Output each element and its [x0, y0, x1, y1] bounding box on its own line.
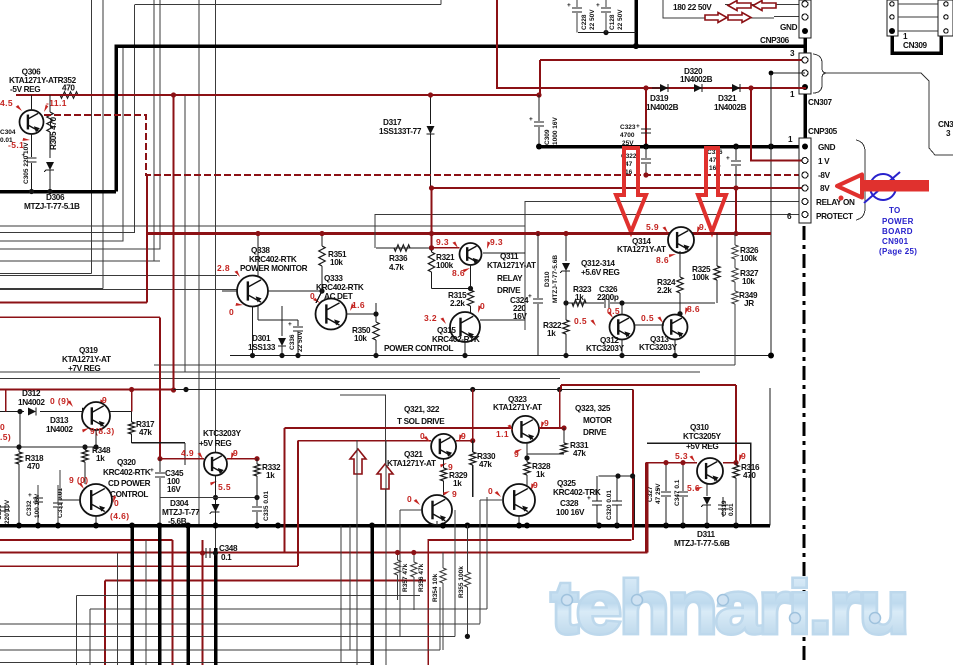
- wire thick bottom: [158, 526, 162, 666]
- svg-text:GND: GND: [780, 23, 798, 32]
- svg-text:C128: C128: [609, 14, 616, 30]
- svg-text:KTC3203Y: KTC3203Y: [586, 344, 625, 353]
- label Q310: [683, 423, 722, 451]
- voltage -5.1: [8, 135, 30, 150]
- label R315: [448, 291, 467, 308]
- wire red base: [429, 245, 460, 250]
- resistor R326: [732, 245, 738, 268]
- capacitor C316: [707, 147, 741, 189]
- capacitor C348: [200, 548, 218, 558]
- label D301: [248, 334, 276, 352]
- svg-text:MOTOR: MOTOR: [583, 416, 612, 425]
- label D306: [24, 193, 80, 211]
- label C348: [219, 544, 238, 562]
- wire: [375, 215, 806, 249]
- junction: [643, 172, 648, 177]
- svg-text:C323: C323: [620, 124, 636, 131]
- label R316: [741, 463, 760, 480]
- wire: [428, 92, 433, 124]
- svg-text:Q338: Q338: [251, 246, 270, 255]
- wire: [480, 320, 525, 330]
- svg-text:+5.6V REG: +5.6V REG: [581, 268, 620, 277]
- capacitor C330: [0, 499, 11, 524]
- svg-text:+: +: [528, 293, 532, 300]
- wire: [160, 495, 260, 500]
- arrow: [728, 13, 751, 23]
- transistor Q306: [20, 110, 44, 134]
- wire: [677, 251, 682, 316]
- label R323: [573, 285, 592, 302]
- svg-text:DRIVE: DRIVE: [497, 286, 521, 295]
- label R322: [543, 321, 562, 338]
- svg-text:1N4002: 1N4002: [18, 398, 45, 407]
- wire: [135, 4, 441, 6]
- svg-text:-5V REG: -5V REG: [10, 85, 40, 94]
- wire: [346, 311, 379, 316]
- label R350: [352, 326, 371, 343]
- label C328: [556, 499, 585, 517]
- capacitor C305: [22, 142, 37, 184]
- arrow: [705, 13, 727, 23]
- resistor R305: [47, 112, 58, 150]
- wire: [0, 5, 135, 233]
- wire: [0, 412, 56, 448]
- wire: [31, 134, 33, 192]
- voltage 0: [310, 291, 320, 303]
- connector CN307: [799, 53, 811, 94]
- capacitor C323: [620, 123, 651, 147]
- svg-text:1k: 1k: [536, 470, 545, 479]
- svg-text:2200p: 2200p: [597, 293, 619, 302]
- resistor R329: [440, 459, 446, 495]
- wire: [76, 596, 420, 666]
- svg-text:T SOL DRIVE: T SOL DRIVE: [397, 417, 445, 426]
- label R317: [136, 420, 155, 437]
- label R328: [532, 462, 551, 479]
- svg-text:1SS133T-77: 1SS133T-77: [379, 127, 422, 136]
- connector CNP305: [799, 138, 811, 223]
- svg-text:9 (0): 9 (0): [69, 475, 88, 485]
- svg-text:Q323, 325: Q323, 325: [575, 404, 611, 413]
- svg-text:16V: 16V: [167, 485, 181, 494]
- junction: [535, 231, 738, 236]
- svg-text:9.3: 9.3: [436, 237, 449, 247]
- wire: [341, 526, 350, 663]
- label Q323 325: [575, 404, 612, 437]
- wire: [0, 0, 160, 249]
- capacitor C331: [53, 485, 64, 526]
- voltage 9r: [442, 488, 457, 499]
- capacitor C345: [150, 459, 165, 526]
- svg-text:D306: D306: [46, 193, 65, 202]
- ground rail: [0, 524, 770, 528]
- wire red: [723, 460, 739, 465]
- junction: [250, 353, 774, 359]
- wire: [213, 476, 218, 500]
- label R348: [92, 446, 111, 463]
- capacitor C327: [647, 460, 671, 526]
- wire: [31, 95, 33, 110]
- svg-text:CN309: CN309: [903, 41, 928, 50]
- svg-text:C320 0.01: C320 0.01: [606, 490, 613, 520]
- svg-text:CN901: CN901: [882, 237, 909, 246]
- wire: [184, 95, 186, 372]
- wire: [153, 0, 155, 261]
- wire: [437, 521, 446, 529]
- svg-text:Q321, 322: Q321, 322: [404, 405, 440, 414]
- label D320: [680, 67, 713, 84]
- svg-text:9.3: 9.3: [490, 237, 503, 247]
- voltage (4.6): [110, 511, 129, 521]
- pin 1: [790, 90, 795, 99]
- capacitor C320: [606, 476, 622, 526]
- wire red rail2: [0, 389, 174, 391]
- svg-text:10k: 10k: [354, 334, 367, 343]
- transistor Q311: [460, 243, 482, 265]
- svg-text:2.2k: 2.2k: [450, 299, 465, 308]
- junction: [16, 523, 739, 529]
- svg-text:0: 0: [407, 494, 412, 504]
- svg-text:D313: D313: [50, 416, 69, 425]
- wire gnd bus: [0, 190, 116, 194]
- resistor R354: [440, 553, 446, 651]
- voltage 0c: [420, 431, 431, 442]
- connector CN307 pins: [802, 57, 808, 76]
- label GND: [818, 143, 836, 152]
- svg-text:+: +: [150, 467, 154, 474]
- wire thick bottom: [186, 526, 190, 666]
- zener D306: [44, 162, 54, 192]
- wire: [0, 587, 440, 650]
- resistor R325: [714, 234, 720, 304]
- resistor R349: [732, 291, 738, 365]
- svg-text:5.3: 5.3: [675, 451, 688, 461]
- voltage 9h: [529, 480, 539, 491]
- wire red: [561, 385, 736, 440]
- svg-text:MTZJ-T-77-5.6B: MTZJ-T-77-5.6B: [674, 539, 730, 548]
- label R326: [740, 246, 759, 263]
- diode D317: [427, 126, 435, 188]
- wire CN307 mid: [771, 72, 805, 74]
- svg-text:BOARD: BOARD: [882, 227, 913, 236]
- wire 9.4V rail: [147, 232, 771, 235]
- resistor R331: [527, 428, 567, 454]
- wire: [0, 316, 160, 318]
- wire: [440, 0, 442, 5]
- svg-text:R356 47k: R356 47k: [418, 563, 425, 592]
- voltage 1.1: [496, 424, 515, 439]
- transistor Q325: [503, 484, 535, 516]
- svg-text:4.7k: 4.7k: [389, 263, 404, 272]
- svg-text:+5V REG: +5V REG: [199, 439, 231, 448]
- wire red: [470, 390, 475, 444]
- arrow big: [616, 148, 646, 232]
- arrow up2: [377, 464, 393, 489]
- voltage 9c: [229, 448, 239, 460]
- svg-text:-8V: -8V: [818, 171, 831, 180]
- svg-text:10k: 10k: [330, 258, 343, 267]
- wire red: [735, 440, 737, 463]
- wire red: [645, 463, 647, 553]
- wire: [578, 30, 639, 49]
- wire: [215, 0, 217, 548]
- transistor Q313: [663, 315, 688, 340]
- label R331: [570, 441, 589, 458]
- svg-text:1N4002B: 1N4002B: [646, 103, 679, 112]
- svg-text:D321: D321: [718, 94, 737, 103]
- voltage 9: [98, 395, 108, 407]
- label CN309: [903, 41, 928, 50]
- arrow: [728, 1, 751, 11]
- capacitor C324: [528, 234, 543, 356]
- label TO POWER BOARD: [879, 206, 917, 256]
- svg-text:16: 16: [625, 169, 633, 176]
- capacitor C332: [26, 485, 43, 526]
- svg-text:KTC3203Y: KTC3203Y: [203, 429, 242, 438]
- svg-text:Q310: Q310: [690, 423, 709, 432]
- capacitor C128: [596, 2, 624, 30]
- label R349: [739, 291, 758, 308]
- wire: [734, 234, 736, 246]
- svg-text:8.6: 8.6: [452, 268, 465, 278]
- svg-text:0.5: 0.5: [574, 316, 587, 326]
- wire: [539, 60, 541, 95]
- wire: [0, 371, 700, 373]
- svg-text:100 16V: 100 16V: [556, 508, 585, 517]
- svg-text:MTZJ-T-77-5.6B: MTZJ-T-77-5.6B: [552, 255, 559, 303]
- svg-text:C330: C330: [0, 504, 3, 520]
- svg-text:9: 9: [452, 489, 457, 499]
- resistor 470: [60, 84, 78, 99]
- wire: [370, 526, 374, 666]
- label 8V: [820, 184, 830, 193]
- junction: [254, 523, 260, 529]
- wire: [356, 440, 358, 665]
- label C324: [510, 296, 529, 321]
- wire: [90, 609, 487, 665]
- resistor R327: [732, 268, 738, 291]
- svg-text:C305 220 10V: C305 220 10V: [23, 142, 30, 184]
- wire: [803, 38, 807, 53]
- wire black: [174, 389, 634, 391]
- label R330: [477, 452, 496, 469]
- dash-dot line: [802, 226, 805, 665]
- svg-text:470: 470: [27, 462, 40, 471]
- wire 8V rail: [432, 187, 807, 189]
- wire red: [0, 539, 173, 541]
- label CNP305: [808, 127, 838, 136]
- diode D312: [0, 408, 36, 416]
- voltage 5.3: [675, 451, 697, 462]
- svg-text:3.2: 3.2: [424, 313, 437, 323]
- voltage -11.1: [43, 98, 67, 112]
- svg-text:Q333: Q333: [324, 274, 343, 283]
- svg-text:R354 10k: R354 10k: [432, 573, 439, 602]
- pin 3: [790, 49, 795, 58]
- wire red: [202, 540, 204, 665]
- voltage 9.3: [436, 237, 460, 248]
- svg-text:KRC402-RTK: KRC402-RTK: [103, 468, 151, 477]
- wire: [470, 265, 472, 290]
- svg-text:C348: C348: [219, 544, 238, 553]
- wire: [525, 202, 806, 331]
- voltage 5.5: [209, 478, 231, 492]
- label R324: [657, 278, 676, 295]
- svg-text:POWER: POWER: [882, 217, 914, 226]
- label Q319: [62, 346, 111, 373]
- resistor R318: [16, 444, 22, 525]
- wire: [0, 510, 455, 636]
- transistor Q320: [80, 484, 112, 516]
- label D317: [379, 118, 422, 136]
- wire: [400, 510, 421, 637]
- svg-text:C304: C304: [0, 129, 16, 136]
- capacitor C319: [718, 497, 735, 517]
- svg-text:KTC3205Y: KTC3205Y: [683, 432, 722, 441]
- label D313: [46, 416, 73, 434]
- label R351: [328, 250, 347, 267]
- svg-text:-11.1: -11.1: [46, 98, 67, 108]
- wire: [0, 46, 123, 241]
- resistor R316: [733, 463, 739, 526]
- svg-text:DRIVE: DRIVE: [583, 428, 607, 437]
- connector CN309: [887, 0, 898, 36]
- wire red: [172, 540, 174, 665]
- label PROTECT: [816, 212, 853, 221]
- wire thick bottom: [130, 526, 134, 666]
- wire: [634, 0, 638, 46]
- svg-text:C332: C332: [26, 500, 33, 516]
- svg-text:KTA1271Y-AT: KTA1271Y-AT: [487, 261, 536, 270]
- svg-text:+: +: [636, 123, 640, 130]
- svg-text:.5): .5): [0, 432, 11, 442]
- svg-text:GND: GND: [818, 143, 836, 152]
- wire: [563, 300, 604, 305]
- wire: [429, 188, 434, 248]
- junction: [171, 92, 176, 392]
- svg-text:+: +: [596, 2, 600, 9]
- wire -5V rail: [16, 94, 539, 96]
- resistor R332: [254, 459, 260, 498]
- wire: [0, 661, 370, 663]
- svg-text:TO: TO: [889, 206, 901, 215]
- label R355: [458, 566, 465, 598]
- wire: [577, 0, 606, 33]
- svg-text:0 (9): 0 (9): [50, 396, 69, 406]
- voltage 0.5c: [641, 313, 665, 323]
- wire: [340, 395, 386, 526]
- svg-text:KRC402-RTK: KRC402-RTK: [432, 335, 480, 344]
- voltage 0.5: [606, 306, 620, 318]
- label D319: [646, 94, 679, 112]
- svg-text:D310: D310: [544, 271, 551, 287]
- wire red: [105, 580, 426, 582]
- voltage 4.9: [181, 448, 205, 459]
- wire red: [283, 428, 285, 553]
- voltage 0 (9): [50, 396, 75, 407]
- wire: [60, 470, 80, 500]
- label Q333: [316, 274, 364, 301]
- wire: [253, 306, 299, 356]
- svg-text:0.01: 0.01: [0, 137, 13, 144]
- wire red: [428, 540, 631, 665]
- junction: [643, 85, 648, 90]
- wire red: [647, 463, 649, 553]
- capacitor C228: [567, 2, 596, 30]
- junction: [429, 185, 739, 190]
- label Q313: [639, 335, 678, 352]
- svg-text:KRC402-TRK: KRC402-TRK: [553, 488, 601, 497]
- svg-text:0.5: 0.5: [607, 306, 620, 316]
- junction: [157, 456, 259, 461]
- label C129: [673, 3, 712, 12]
- label CN3: [938, 120, 953, 138]
- wire: [159, 317, 161, 458]
- arrow 8V: [837, 175, 929, 201]
- label Q338: [240, 246, 308, 273]
- phi symbol: [864, 172, 900, 203]
- zener D304: [210, 498, 220, 526]
- voltage 0.5b: [574, 316, 598, 326]
- resistor R317: [128, 412, 134, 443]
- wire: [375, 215, 432, 249]
- svg-text:1N4002: 1N4002: [46, 425, 73, 434]
- wire red: [0, 552, 648, 554]
- svg-text:2.8: 2.8: [217, 263, 230, 273]
- svg-text:100k: 100k: [740, 254, 758, 263]
- svg-text:D312: D312: [22, 389, 41, 398]
- wire 9V bus: [539, 145, 806, 149]
- wire: [0, 275, 237, 277]
- transistor Q317: [82, 402, 110, 430]
- svg-text:0: 0: [488, 486, 493, 496]
- pin 1: [903, 32, 908, 41]
- svg-text:47: 47: [625, 161, 633, 168]
- label Q323: [493, 395, 542, 412]
- zener D311z: [701, 484, 711, 526]
- label R332: [262, 463, 281, 480]
- svg-text:POWER CONTROL: POWER CONTROL: [384, 344, 453, 353]
- wire red: [298, 440, 431, 442]
- svg-text:Q325: Q325: [557, 479, 576, 488]
- transistor Q315: [450, 312, 480, 342]
- svg-text:1k: 1k: [453, 479, 462, 488]
- svg-text:470: 470: [62, 84, 75, 93]
- label RELAY ON: [816, 198, 855, 207]
- resistor R330: [470, 441, 476, 497]
- label R354: [432, 573, 439, 602]
- svg-text:9(8.3): 9(8.3): [90, 426, 115, 436]
- diode D320: [694, 84, 702, 92]
- wire: [497, 0, 806, 88]
- wire: [255, 231, 260, 276]
- capacitor C309: [529, 95, 559, 147]
- svg-text:5.9: 5.9: [646, 222, 659, 232]
- label R357: [402, 563, 409, 592]
- svg-text:D301: D301: [252, 334, 271, 343]
- wire: [486, 497, 488, 609]
- voltage 9.4: [695, 222, 707, 234]
- svg-text:POWER MONITOR: POWER MONITOR: [240, 264, 308, 273]
- svg-text:PROTECT: PROTECT: [816, 212, 853, 221]
- svg-text:2.2k: 2.2k: [657, 286, 672, 295]
- svg-text:1k: 1k: [96, 454, 105, 463]
- capacitor C322: [621, 147, 651, 177]
- label R318: [25, 454, 44, 471]
- wire: [672, 339, 677, 358]
- svg-text:1.1: 1.1: [496, 429, 509, 439]
- diode D321: [732, 84, 740, 92]
